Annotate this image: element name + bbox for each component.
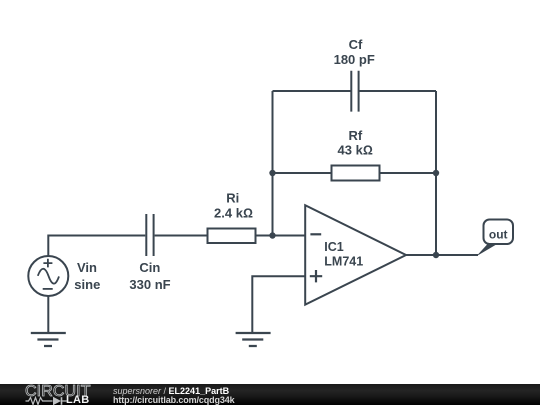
label Ri 2.4 kohm — [214, 191, 253, 221]
label IC1 LM741 — [324, 240, 363, 269]
CircuitLab logo CIRCUIT — [25, 386, 91, 398]
wire Rf right — [380, 172, 437, 174]
wire Vin to Cin — [48, 236, 145, 257]
ground at non-inverting input — [236, 333, 271, 346]
node junction Rf right — [433, 170, 439, 176]
flag out — [476, 220, 513, 257]
wire Vin to ground — [47, 296, 49, 332]
label Cin 330 nF — [129, 260, 170, 292]
svg-text:330 nF: 330 nF — [129, 277, 170, 292]
label Vin sine — [74, 260, 100, 292]
capacitor Cf — [351, 71, 358, 112]
CircuitLab logo LAB — [66, 396, 90, 405]
svg-text:43 kΩ: 43 kΩ — [338, 143, 373, 158]
label Rf 43 kohm — [338, 128, 373, 158]
wire feedback right vertical — [435, 91, 437, 255]
footer line 2: url — [113, 396, 235, 405]
svg-text:Cin: Cin — [139, 260, 160, 275]
node junction inverting input — [269, 232, 275, 238]
svg-text:Rf: Rf — [349, 128, 363, 143]
wire Cf to right vertical — [359, 90, 436, 92]
capacitor Cin — [146, 214, 153, 256]
svg-text:out: out — [489, 227, 508, 241]
svg-text:Ri: Ri — [226, 191, 239, 206]
wire feedback left vertical — [272, 91, 274, 236]
svg-text:LM741: LM741 — [324, 255, 363, 269]
node junction output — [433, 252, 439, 258]
svg-text:2.4 kΩ: 2.4 kΩ — [214, 206, 253, 221]
ground at Vin — [31, 333, 66, 346]
svg-text:sine: sine — [74, 277, 100, 292]
footer bar — [0, 384, 540, 405]
wire op-amp output — [406, 254, 478, 256]
wire non-inverting input — [252, 276, 305, 332]
wire Cin to Ri — [155, 235, 208, 237]
wire Ri to inverting input — [256, 235, 306, 237]
svg-text:180 pF: 180 pF — [334, 52, 375, 67]
op-amp U1 IC1 LM741 — [305, 205, 406, 305]
node junction Rf left — [269, 170, 275, 176]
svg-text:Cf: Cf — [349, 37, 363, 52]
resistor Rf — [332, 166, 380, 181]
resistor Ri — [208, 229, 256, 244]
svg-text:IC1: IC1 — [324, 240, 344, 254]
voltage source V1 Vin — [28, 256, 68, 296]
svg-text:Vin: Vin — [77, 260, 97, 275]
footer line 1: author / title — [113, 387, 229, 396]
wire Rf left — [273, 172, 332, 174]
label Cf 180 pF — [334, 37, 375, 67]
CircuitLab logo resistor-diode squiggle — [25, 396, 69, 406]
wire top loop left to Cf — [273, 90, 352, 92]
